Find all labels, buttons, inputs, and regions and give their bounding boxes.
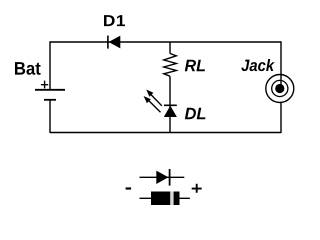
wire right vertical from top corner down to jack tip: [280, 41, 282, 88]
resistor RL label: [185, 60, 205, 71]
wire left vertical from battery negative plate to bottom corner: [49, 100, 51, 133]
battery Bat label: [15, 62, 41, 75]
wire bottom from battery branch to jack branch: [50, 132, 281, 134]
legend plus polarity mark: [192, 184, 202, 193]
LED DL emission arrow lower: [144, 96, 161, 112]
LED DL label: [185, 108, 206, 119]
battery negative plate: [44, 99, 56, 101]
jack outer ring: [266, 75, 294, 103]
legend diode package body: [151, 192, 180, 206]
legend minus polarity mark: [126, 187, 132, 189]
jack middle ring: [272, 80, 288, 96]
wire right vertical from jack bottom to bottom corner: [280, 103, 282, 133]
battery plus polarity mark: [41, 81, 48, 89]
wire middle branch vertical through RL and DL: [169, 42, 171, 133]
legend diode package lead wire: [140, 197, 190, 199]
resistor RL zigzag: [164, 54, 177, 77]
wire top from battery to D1 and on to jack: [50, 41, 281, 43]
legend diode package cathode band: [170, 192, 173, 206]
LED DL cathode bar: [164, 104, 177, 106]
legend diode symbol triangle: [156, 171, 168, 184]
wire left vertical from top corner to battery positive plate: [49, 41, 51, 90]
diode D1 label: [104, 15, 125, 26]
battery positive plate: [35, 89, 65, 91]
diode D1 cathode bar: [107, 36, 109, 49]
LED DL emission arrow upper: [146, 90, 162, 106]
jack center tip dot: [275, 84, 284, 93]
diode D1 triangle: [109, 36, 121, 49]
legend diode symbol cathode bar: [169, 169, 171, 186]
legend diode symbol lead wire: [140, 176, 185, 178]
LED DL triangle: [164, 106, 177, 117]
jack label: [241, 59, 274, 71]
